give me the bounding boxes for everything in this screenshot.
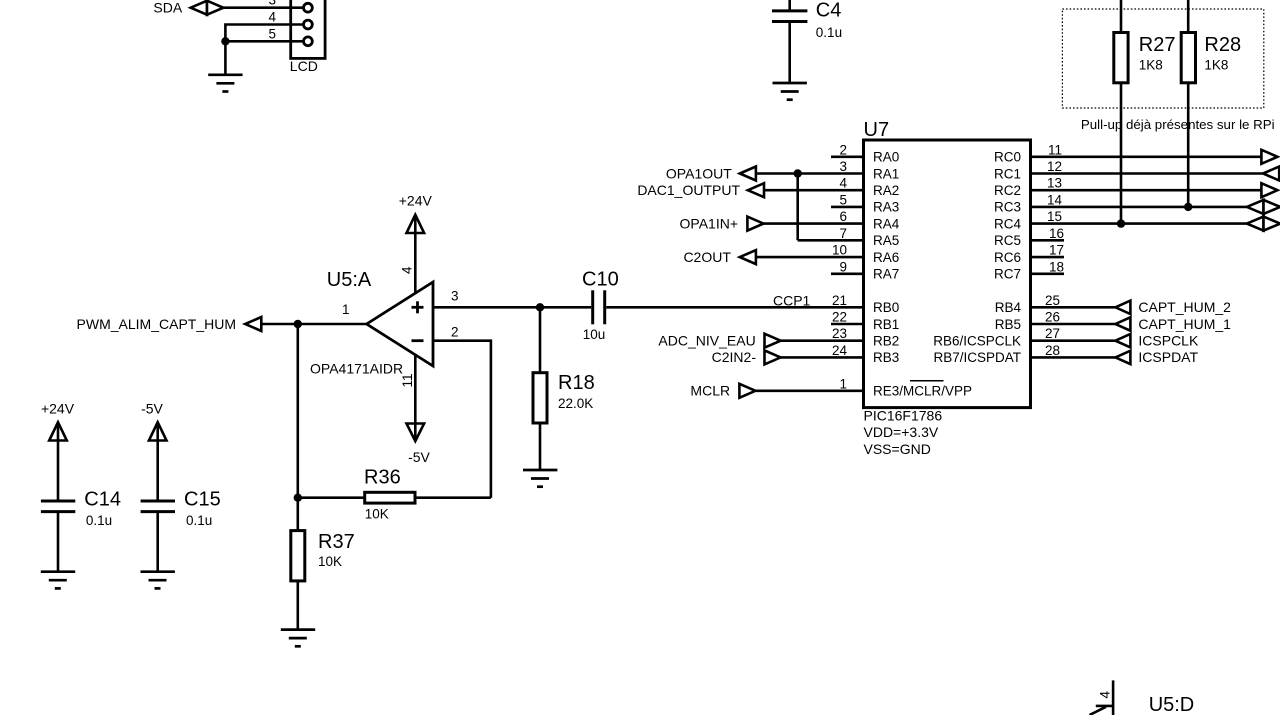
- wire to ground: [224, 41, 227, 75]
- svg-text:3: 3: [268, 0, 276, 8]
- svg-text:2: 2: [839, 142, 847, 157]
- wire R27 top: [1120, 0, 1123, 33]
- svg-text:-5V: -5V: [141, 400, 163, 416]
- dotted note box: [1062, 9, 1263, 108]
- svg-text:10: 10: [832, 243, 847, 258]
- svg-text:RC6: RC6: [994, 250, 1021, 265]
- svg-text:ADC_NIV_EAU: ADC_NIV_EAU: [658, 333, 755, 349]
- U7 pin 25 RB4: [995, 293, 1116, 315]
- U7 pin 13 RC2: [994, 176, 1262, 198]
- junction R28 to RC3: [1184, 203, 1192, 211]
- resistor R28: [1181, 33, 1195, 83]
- resistor R36: [365, 492, 415, 503]
- svg-text:+24V: +24V: [399, 192, 433, 208]
- svg-text:RB4: RB4: [995, 300, 1022, 315]
- svg-text:RA7: RA7: [873, 267, 899, 282]
- svg-text:1: 1: [342, 302, 350, 317]
- svg-text:21: 21: [832, 293, 847, 308]
- svg-text:6: 6: [839, 209, 847, 224]
- svg-text:OPA1IN+: OPA1IN+: [680, 215, 739, 231]
- arrow PWM_ALIM_CAPT_HUM out: [245, 317, 261, 331]
- arrow OPA1IN+ in: [747, 217, 763, 231]
- wire R37 bottom: [296, 581, 299, 630]
- svg-text:VDD=+3.3V: VDD=+3.3V: [864, 424, 939, 440]
- svg-text:PIC16F1786: PIC16F1786: [864, 408, 943, 424]
- svg-text:CAPT_HUM_1: CAPT_HUM_1: [1138, 316, 1231, 332]
- connector LCD: [291, 0, 325, 58]
- ground: [773, 83, 807, 100]
- junction R37 node: [294, 494, 302, 502]
- wire R28 top: [1187, 0, 1190, 33]
- svg-text:SDA: SDA: [153, 0, 182, 16]
- svg-text:22: 22: [832, 310, 847, 325]
- U7 pin 7 RA5: [798, 226, 900, 248]
- svg-text:CCP1: CCP1: [773, 292, 811, 308]
- svg-text:RA2: RA2: [873, 183, 899, 198]
- svg-text:ICSPCLK: ICSPCLK: [1138, 333, 1199, 349]
- svg-text:22.0K: 22.0K: [558, 396, 593, 411]
- plus input marker: [412, 301, 424, 313]
- ground: [281, 630, 315, 647]
- arrow MCLR in: [739, 384, 755, 398]
- junction pin4/5 node: [221, 37, 229, 45]
- ground: [141, 572, 175, 589]
- U7 pin 15 RC4: [994, 209, 1247, 231]
- svg-text:9: 9: [839, 259, 847, 274]
- arrow OPA1OUT out: [740, 167, 756, 181]
- svg-text:5: 5: [268, 26, 276, 41]
- U7 pin 26 RB5: [995, 310, 1116, 332]
- junction R27 to RC4: [1117, 219, 1125, 227]
- wire C15 bottom: [156, 512, 159, 572]
- svg-text:C14: C14: [84, 489, 121, 511]
- svg-text:RC4: RC4: [994, 216, 1021, 231]
- wire V- pin 11: [414, 355, 417, 426]
- power arrow -5V: [407, 424, 425, 442]
- svg-text:R18: R18: [558, 372, 595, 394]
- wire R36 right: [415, 496, 491, 499]
- svg-text:1K8: 1K8: [1139, 57, 1163, 72]
- svg-text:10K: 10K: [365, 507, 389, 522]
- svg-text:RC7: RC7: [994, 267, 1021, 282]
- wire R18 top: [539, 307, 542, 372]
- wire C15 top: [156, 424, 159, 502]
- power arrow -5V up: [149, 422, 167, 440]
- svg-text:RA4: RA4: [873, 216, 900, 231]
- wire SDA to LCD pin 3: [222, 6, 304, 9]
- ground: [41, 572, 75, 589]
- svg-text:Pull-up déjà présentes sur le: Pull-up déjà présentes sur le RPi: [1081, 117, 1275, 132]
- IC U7: [864, 140, 1031, 408]
- wire C14 top: [57, 424, 60, 502]
- wire R36 left: [298, 496, 365, 499]
- svg-text:RC1: RC1: [994, 166, 1021, 181]
- U7 pin 16 RC5: [994, 226, 1064, 248]
- U7 pin 11 RC0: [994, 142, 1262, 164]
- wire C4 top: [788, 0, 791, 11]
- svg-text:PWM_ALIM_CAPT_HUM: PWM_ALIM_CAPT_HUM: [77, 316, 236, 332]
- arrow pin 15 bidirectional: [1247, 217, 1280, 231]
- svg-text:RC2: RC2: [994, 183, 1021, 198]
- wire R27 bottom: [1120, 83, 1123, 224]
- svg-text:RA3: RA3: [873, 200, 899, 215]
- U7 pin 3 RA1: [757, 159, 899, 181]
- U7 pin 28 RB7: [933, 343, 1115, 365]
- svg-text:1: 1: [839, 376, 847, 391]
- op-amp U5:A: [367, 282, 433, 366]
- svg-text:RA5: RA5: [873, 233, 899, 248]
- svg-text:RA6: RA6: [873, 250, 899, 265]
- arrow CAPT_HUM_2 out: [1115, 301, 1130, 314]
- pin 1 wire: [260, 323, 366, 326]
- svg-text:R27: R27: [1139, 34, 1176, 56]
- svg-text:24: 24: [832, 343, 848, 358]
- arrow pin 13 right: [1261, 183, 1277, 197]
- wire R18 bottom: [539, 423, 542, 470]
- U7 pin 2 RA0: [831, 142, 899, 164]
- U7 pin 18 RC7: [994, 259, 1064, 281]
- svg-text:7: 7: [839, 226, 847, 241]
- svg-text:U5:A: U5:A: [327, 269, 372, 291]
- capacitor C10: [593, 290, 605, 324]
- U7 pin 4 RA2: [765, 176, 899, 198]
- minus input marker: [412, 339, 424, 342]
- svg-text:26: 26: [1045, 310, 1060, 325]
- U7 pin 10 RA6: [757, 243, 899, 265]
- U7 pin 14 RC3: [994, 192, 1247, 214]
- svg-text:C2IN2-: C2IN2-: [712, 349, 757, 365]
- svg-text:U7: U7: [864, 119, 890, 141]
- svg-text:4: 4: [268, 10, 276, 25]
- svg-text:OPA4171AIDR: OPA4171AIDR: [310, 361, 403, 377]
- pin 3 wire: [433, 306, 591, 309]
- arrow C2IN2- in: [765, 350, 781, 364]
- svg-text:23: 23: [832, 326, 847, 341]
- svg-text:CAPT_HUM_2: CAPT_HUM_2: [1138, 299, 1231, 315]
- svg-text:C2OUT: C2OUT: [683, 249, 731, 265]
- junction R18 node: [536, 303, 544, 311]
- svg-text:ICSPDAT: ICSPDAT: [1138, 349, 1198, 365]
- capacitor C4: [772, 11, 807, 22]
- svg-text:14: 14: [1047, 192, 1063, 207]
- svg-text:MCLR: MCLR: [690, 383, 730, 399]
- svg-text:RE3/MCLR/VPP: RE3/MCLR/VPP: [873, 384, 972, 399]
- svg-text:11: 11: [1048, 142, 1062, 157]
- wire R37 top: [296, 498, 299, 531]
- svg-text:R28: R28: [1204, 34, 1241, 56]
- svg-text:25: 25: [1045, 293, 1060, 308]
- svg-text:12: 12: [1047, 159, 1062, 174]
- svg-text:1K8: 1K8: [1204, 57, 1228, 72]
- svg-text:3: 3: [451, 288, 459, 303]
- U7 pin 22 RB1: [831, 310, 899, 332]
- svg-text:17: 17: [1049, 243, 1064, 258]
- svg-text:C15: C15: [184, 489, 221, 511]
- U7 pin 21 RB0 wire CCP1 from C10: [606, 293, 899, 315]
- wire RA1 to RA5: [796, 174, 799, 241]
- svg-text:RA1: RA1: [873, 166, 899, 181]
- svg-text:RB7/ICSPDAT: RB7/ICSPDAT: [933, 350, 1021, 365]
- svg-text:RC3: RC3: [994, 200, 1021, 215]
- arrow ICSPCLK out: [1115, 334, 1130, 347]
- svg-text:16: 16: [1049, 226, 1064, 241]
- svg-text:VSS=GND: VSS=GND: [864, 441, 931, 457]
- U7 pin 23 RB2: [781, 326, 900, 348]
- svg-text:4: 4: [1098, 691, 1113, 699]
- wire R28 bottom: [1187, 83, 1190, 207]
- wire C14 bottom: [57, 512, 60, 572]
- wire C4 bottom: [788, 22, 791, 84]
- svg-text:15: 15: [1047, 209, 1062, 224]
- svg-text:RB5: RB5: [995, 317, 1021, 332]
- ground: [208, 75, 242, 92]
- resistor R37: [291, 531, 305, 581]
- svg-text:-5V: -5V: [408, 449, 430, 465]
- ground: [523, 470, 557, 487]
- U7 pin 12 RC1: [994, 159, 1263, 181]
- U7 pin 9 RA7: [831, 259, 899, 281]
- U7 pin 27 RB6: [933, 326, 1115, 348]
- arrow CAPT_HUM_1 out: [1115, 317, 1130, 330]
- arrow ICSPDAT out: [1115, 351, 1130, 364]
- svg-text:2: 2: [451, 325, 459, 340]
- svg-text:+24V: +24V: [41, 400, 75, 416]
- svg-text:4: 4: [839, 176, 847, 191]
- svg-text:4: 4: [400, 266, 415, 274]
- svg-text:RB3: RB3: [873, 350, 899, 365]
- svg-text:3: 3: [839, 159, 847, 174]
- svg-text:U5:D: U5:D: [1149, 694, 1195, 715]
- U7 pin 5 RA3: [831, 192, 899, 214]
- arrow pin 11 right: [1261, 150, 1277, 164]
- bidirectional arrow SDA: [191, 1, 224, 15]
- svg-text:R37: R37: [318, 531, 355, 553]
- resistor R18: [533, 373, 547, 423]
- op-amp U5:D partial: [1090, 680, 1114, 715]
- U7 pin 24 RB3: [781, 343, 900, 365]
- wire V+ pin 4: [414, 216, 417, 294]
- svg-text:13: 13: [1047, 176, 1062, 191]
- arrow pin 14 bidirectional: [1247, 200, 1280, 214]
- svg-text:C10: C10: [582, 268, 619, 290]
- svg-text:RB1: RB1: [873, 317, 899, 332]
- svg-text:5: 5: [839, 192, 847, 207]
- svg-text:RC5: RC5: [994, 233, 1021, 248]
- svg-text:DAC1_OUTPUT: DAC1_OUTPUT: [637, 182, 740, 198]
- svg-text:RB0: RB0: [873, 300, 899, 315]
- svg-text:OPA1OUT: OPA1OUT: [666, 165, 732, 181]
- svg-text:28: 28: [1045, 343, 1060, 358]
- svg-text:11: 11: [400, 373, 415, 387]
- power arrow +24V: [407, 215, 425, 233]
- svg-text:18: 18: [1049, 259, 1064, 274]
- svg-text:0.1u: 0.1u: [86, 513, 112, 528]
- wire LCD pin 5: [225, 40, 303, 43]
- svg-text:0.1u: 0.1u: [186, 513, 212, 528]
- pin 2 wire: [433, 341, 491, 498]
- arrow C2OUT out: [740, 250, 756, 264]
- svg-text:10K: 10K: [318, 554, 342, 569]
- svg-text:RA0: RA0: [873, 150, 899, 165]
- svg-text:27: 27: [1045, 326, 1060, 341]
- svg-text:RB2: RB2: [873, 334, 899, 349]
- wire feedback vertical: [296, 324, 299, 498]
- svg-text:C4: C4: [816, 0, 842, 21]
- power arrow +24V: [49, 422, 67, 440]
- U7 pin 17 RC6: [994, 243, 1064, 265]
- arrow pin 12 left: [1263, 167, 1279, 181]
- resistor R27: [1114, 33, 1128, 83]
- svg-text:RC0: RC0: [994, 150, 1021, 165]
- svg-text:0.1u: 0.1u: [816, 25, 842, 40]
- svg-text:R36: R36: [364, 466, 401, 488]
- svg-text:LCD: LCD: [290, 58, 318, 74]
- svg-text:10u: 10u: [583, 327, 606, 342]
- svg-text:RB6/ICSPCLK: RB6/ICSPCLK: [933, 334, 1021, 349]
- junction output node: [294, 320, 302, 328]
- arrow DAC1_OUTPUT out: [748, 183, 764, 197]
- U7 pin 1 RE3: [756, 376, 973, 398]
- arrow ADC_NIV_EAU in: [765, 334, 781, 348]
- U7 pin 6 RA4: [764, 209, 900, 231]
- capacitor C15: [141, 501, 175, 512]
- junction RA1/RA5: [794, 169, 802, 177]
- capacitor C14: [41, 501, 75, 512]
- wire LCD pin 4: [225, 25, 303, 42]
